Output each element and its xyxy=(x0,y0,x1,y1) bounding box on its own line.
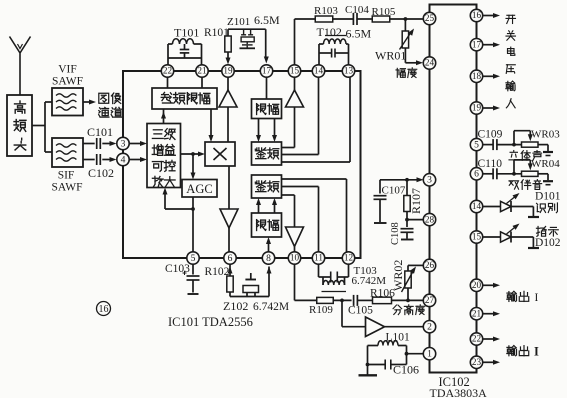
label T103 xyxy=(354,265,378,277)
wire pin3 into amp xyxy=(129,141,147,146)
svg-text:22: 22 xyxy=(163,66,173,76)
svg-text:23: 23 xyxy=(472,357,482,367)
wire pin17 to 限幅 xyxy=(266,77,268,99)
pin 15 IC101 xyxy=(288,65,300,77)
svg-text:6.5M: 6.5M xyxy=(346,27,372,41)
wire junction to audio amp xyxy=(342,300,366,326)
svg-text:28: 28 xyxy=(425,214,435,224)
wire D102 to terminal xyxy=(511,237,539,248)
wire WR02 to pin26 xyxy=(408,264,424,266)
svg-text:C106: C106 xyxy=(393,363,419,377)
wire pin15 riser xyxy=(295,19,316,65)
ground L101 xyxy=(359,365,378,376)
svg-text:T101: T101 xyxy=(174,26,199,40)
pin 3 IC101 xyxy=(117,137,129,149)
wire 鉴频 lower to pin11 xyxy=(282,187,319,253)
wire block to 选频限幅 xyxy=(161,109,166,124)
svg-text:16: 16 xyxy=(99,304,109,315)
wire output arrow o23 xyxy=(483,360,500,365)
wire tap to AGC xyxy=(191,152,196,179)
svg-text:C101: C101 xyxy=(87,125,113,139)
svg-text:20: 20 xyxy=(472,280,482,290)
pin 17 IC101 xyxy=(260,65,272,77)
wire 鉴频 to pin14 xyxy=(282,77,319,155)
wire pin5 to C109 xyxy=(483,144,493,146)
SAW filter VIF SAWF xyxy=(52,64,83,116)
wire pin6 to C110 xyxy=(483,173,493,175)
block 选频限幅 xyxy=(152,88,217,109)
wire C102 to pin 4 xyxy=(102,157,116,162)
transformer T101 tank xyxy=(168,39,202,65)
block 限幅 upper xyxy=(252,99,282,119)
block 鉴频 lower xyxy=(252,175,282,198)
wire output arrow out1 xyxy=(483,283,500,288)
wire switch voltage pin arrow y44.7 xyxy=(483,42,501,47)
svg-text:R103: R103 xyxy=(314,5,338,17)
svg-text:6.742M: 6.742M xyxy=(352,275,387,287)
label 分离度 xyxy=(393,305,425,315)
svg-text:WR01: WR01 xyxy=(375,49,406,63)
capacitor C109 xyxy=(478,129,503,151)
svg-text:2: 2 xyxy=(427,322,432,333)
label 立体声 xyxy=(509,151,542,161)
wire 鉴频 to pin13 xyxy=(282,77,351,162)
svg-text:18: 18 xyxy=(472,71,482,81)
svg-text:21: 21 xyxy=(197,66,207,76)
inductor L101 tank xyxy=(366,341,409,370)
svg-text:R107: R107 xyxy=(409,188,423,214)
label 6.5M T102 xyxy=(346,27,372,41)
label WR03 xyxy=(531,129,560,141)
wire pin10 drop xyxy=(295,264,317,300)
wire 限幅 to 鉴频 right xyxy=(272,119,277,143)
label WR02 vertical xyxy=(391,260,405,291)
wire pin14 to D101 xyxy=(483,206,501,208)
svg-text:6: 6 xyxy=(474,169,479,180)
svg-text:12: 12 xyxy=(344,253,354,263)
wire output arrow o21 xyxy=(483,311,500,316)
label C108 vertical xyxy=(390,222,401,245)
svg-text:16: 16 xyxy=(472,10,482,20)
pin 13 IC101 xyxy=(342,65,354,77)
pin 19 IC101 xyxy=(222,65,234,77)
svg-text:14: 14 xyxy=(314,66,324,76)
antenna xyxy=(10,37,31,96)
ceramic resonator Z102 xyxy=(243,273,259,297)
amplifier triangle to pin6 xyxy=(220,166,238,252)
svg-text:WR02: WR02 xyxy=(391,260,405,291)
capacitor C105 xyxy=(348,295,373,317)
label R107 vertical xyxy=(409,188,423,214)
svg-text:3: 3 xyxy=(427,175,432,186)
label Z102 xyxy=(223,299,248,313)
wire C104 to R105 xyxy=(357,18,373,20)
wire pin3 node xyxy=(380,177,424,182)
svg-text:I: I xyxy=(535,292,539,304)
transformer T103 tank xyxy=(319,264,349,292)
op-amp IC101 TDA2556 outline xyxy=(123,71,361,258)
pin 11 IC101 xyxy=(312,252,324,264)
wire R101 top rail xyxy=(228,28,266,30)
svg-text:25: 25 xyxy=(425,13,435,23)
diode D101 LED xyxy=(501,193,520,212)
label C103 xyxy=(165,263,190,275)
svg-text:11: 11 xyxy=(314,253,323,263)
resistor R106 xyxy=(370,288,395,304)
pin 10 IC101 xyxy=(288,252,300,264)
tuner block 高频头 xyxy=(7,95,32,156)
resistor R109 xyxy=(309,297,333,316)
wire switch voltage pin arrow y108 xyxy=(483,106,501,111)
SAW filter SIF SAWF xyxy=(51,138,83,194)
pin 14 IC102 xyxy=(470,200,482,212)
wire Z101 rail to pin17 xyxy=(264,29,269,63)
svg-text:3: 3 xyxy=(121,138,126,149)
multiplier X block xyxy=(205,142,235,166)
svg-text:C104: C104 xyxy=(345,4,369,16)
wire C105 to R106 xyxy=(357,299,372,301)
potentiometer WR01 xyxy=(400,19,424,65)
svg-text:27: 27 xyxy=(425,295,435,305)
label C106 xyxy=(393,363,419,377)
svg-text:1: 1 xyxy=(427,349,432,360)
potentiometer WR02 xyxy=(402,265,417,300)
amplifier triangle to pin15 xyxy=(286,77,304,107)
capacitor C108 xyxy=(401,220,414,240)
wire output arrow o22 xyxy=(483,337,500,342)
label IC101 TDA2556 xyxy=(168,315,253,329)
label 双伴音 xyxy=(509,180,542,190)
svg-text:C109: C109 xyxy=(478,129,503,141)
svg-text:C103: C103 xyxy=(165,263,190,275)
amplifier audio triangle xyxy=(366,317,385,337)
pin 4 IC101 xyxy=(117,153,129,165)
svg-text:5: 5 xyxy=(474,139,479,150)
svg-text:14: 14 xyxy=(472,201,482,211)
potentiometer WR03 xyxy=(514,131,553,156)
svg-text:5: 5 xyxy=(191,253,196,264)
svg-text:6.742M: 6.742M xyxy=(253,301,289,313)
amplifier triangle to pin10 xyxy=(286,227,304,252)
pin 14 IC101 xyxy=(312,65,324,77)
label WR01 xyxy=(375,49,406,63)
capacitor C107 xyxy=(374,180,387,223)
label 幅度 xyxy=(396,68,417,78)
svg-text:R109: R109 xyxy=(309,304,333,316)
svg-text:Z101: Z101 xyxy=(227,16,250,28)
svg-text:VIF: VIF xyxy=(58,64,77,76)
pin 6 IC101 xyxy=(224,252,236,264)
svg-text:WR03: WR03 xyxy=(531,129,560,141)
resistor R105 xyxy=(372,6,396,22)
wire R106 to pin27 xyxy=(392,299,424,303)
svg-text:13: 13 xyxy=(344,66,354,76)
amplifier triangle to pin19 xyxy=(219,77,237,107)
svg-text:15: 15 xyxy=(290,66,300,76)
wire R109 to junction xyxy=(333,299,351,303)
svg-text:6: 6 xyxy=(228,253,233,264)
diode D102 LED xyxy=(501,224,520,243)
wire pin15 to D102 xyxy=(483,236,501,238)
label R101 xyxy=(204,27,229,39)
wire pin22 to block xyxy=(167,77,169,88)
label 图像通道 xyxy=(99,93,122,117)
svg-text:I: I xyxy=(534,345,539,359)
pin 21 IC101 xyxy=(196,65,208,77)
block AGC xyxy=(182,180,217,198)
svg-text:SAWF: SAWF xyxy=(51,182,82,194)
wire R105 to pin25 xyxy=(390,17,424,21)
svg-text:24: 24 xyxy=(425,58,435,68)
pin 26 IC102 xyxy=(423,259,435,271)
svg-text:D102: D102 xyxy=(535,237,561,249)
svg-text:WR04: WR04 xyxy=(531,158,560,170)
resistor R102 xyxy=(227,264,233,297)
wire 限幅 to 鉴频 left xyxy=(256,119,261,143)
svg-text:SAWF: SAWF xyxy=(52,76,83,88)
svg-text:6.5M: 6.5M xyxy=(254,13,280,27)
pin 25 IC102 xyxy=(423,12,435,24)
pin 3 IC102 xyxy=(423,174,435,186)
svg-text:C107: C107 xyxy=(382,185,406,197)
wire X to triangle xyxy=(227,107,229,142)
svg-text:10: 10 xyxy=(290,253,300,263)
wire SIF to C102 xyxy=(83,159,95,161)
potentiometer WR04 xyxy=(514,160,553,185)
pin 16 IC102 xyxy=(470,9,482,21)
wire rail to pin8 xyxy=(267,267,272,297)
resistor R101 xyxy=(225,29,231,64)
wire R102 Z102 rail xyxy=(230,296,269,298)
pin 2 IC102 xyxy=(423,321,435,333)
capacitor C103 xyxy=(183,264,200,294)
wire AGC feedback to amp xyxy=(163,188,195,211)
wire tank to pin1 xyxy=(407,353,424,355)
wire AGC to pin5 xyxy=(192,197,194,252)
label 输出 I xyxy=(507,291,539,304)
ceramic filter Z101 xyxy=(240,29,256,48)
wire pin8 to 限幅 lower xyxy=(266,237,271,252)
capacitor C101 xyxy=(87,125,113,149)
pin 24 IC102 xyxy=(423,57,435,69)
wire amp to X xyxy=(181,152,206,157)
svg-text:TDA3803A: TDA3803A xyxy=(430,386,488,398)
pin 8 IC101 xyxy=(262,252,274,264)
label L101 xyxy=(386,332,411,344)
wire pin28 node xyxy=(407,219,424,221)
transformer T102 tank xyxy=(319,36,349,66)
svg-text:AGC: AGC xyxy=(186,182,212,196)
svg-text:26: 26 xyxy=(425,260,435,270)
pin 23 IC102 xyxy=(470,356,482,368)
pin 15 IC102 xyxy=(470,231,482,243)
wire tuner to SAW filters xyxy=(32,102,52,152)
svg-text:Z102: Z102 xyxy=(223,299,248,313)
wire 限幅 lower to 鉴频 left xyxy=(256,198,261,213)
wire switch voltage pin arrow y15.5 xyxy=(483,13,501,18)
label WR04 xyxy=(531,158,560,170)
wire SIF to C101 xyxy=(83,143,95,145)
block 限幅 lower xyxy=(252,213,282,237)
svg-text:21: 21 xyxy=(472,308,482,318)
svg-text:4: 4 xyxy=(121,154,126,165)
svg-text:IC101 TDA2556: IC101 TDA2556 xyxy=(168,315,253,329)
label Z101 xyxy=(227,16,250,28)
capacitor C110 xyxy=(478,158,503,179)
label 输出 II xyxy=(507,345,539,359)
svg-text:C108: C108 xyxy=(390,222,401,245)
wire amp to pin2 xyxy=(385,326,424,328)
pin 22 IC102 xyxy=(470,333,482,345)
svg-text:15: 15 xyxy=(472,232,482,242)
svg-text:C110: C110 xyxy=(478,158,503,170)
wire switch voltage pin arrow y76.3 xyxy=(483,74,501,79)
svg-text:19: 19 xyxy=(472,103,482,113)
label 6.742M T103 xyxy=(352,275,387,287)
pin 5 IC102 xyxy=(470,138,482,150)
label R102 xyxy=(205,266,230,278)
pin 22 IC101 xyxy=(161,65,173,77)
pin 17 IC102 xyxy=(470,39,482,51)
pin 5 IC101 xyxy=(187,252,199,264)
svg-text:R101: R101 xyxy=(204,27,229,39)
svg-text:R105: R105 xyxy=(372,6,396,18)
pin 20 IC102 xyxy=(470,279,482,291)
pin 19 IC102 xyxy=(470,102,482,114)
op-amp IC102 TDA3803A outline xyxy=(430,5,477,373)
wire pin4 into amp xyxy=(129,157,147,162)
svg-text:17: 17 xyxy=(472,39,482,49)
svg-text:SIF: SIF xyxy=(58,170,75,182)
capacitor C102 xyxy=(88,154,114,180)
figure number 16 xyxy=(97,302,111,316)
wire C101 to pin 3 xyxy=(102,141,116,146)
svg-text:8: 8 xyxy=(266,253,271,264)
wire 鉴频 lower to pin10 amp xyxy=(282,195,295,227)
block 三级增益可控放大 xyxy=(147,124,181,188)
pin 27 IC102 xyxy=(423,294,435,306)
svg-text:22: 22 xyxy=(472,334,482,344)
wire VIF output to video channel xyxy=(83,100,96,105)
svg-text:R102: R102 xyxy=(205,266,230,278)
pin 18 IC102 xyxy=(470,70,482,82)
svg-text:19: 19 xyxy=(223,66,233,76)
svg-text:17: 17 xyxy=(262,66,272,76)
resistor R107 xyxy=(404,180,410,222)
wire C110 to WR04 xyxy=(497,172,522,176)
pin 12 IC101 xyxy=(342,252,354,264)
label 识别 xyxy=(537,203,558,213)
capacitor C104 xyxy=(345,4,369,25)
label TDA3803A xyxy=(430,386,488,398)
label 6.5M top xyxy=(254,13,280,27)
wire 鉴频 lower to pin12 xyxy=(282,179,347,252)
label T102 xyxy=(317,25,342,39)
wire R103 to C104 xyxy=(333,18,354,20)
wire C109 to WR03 xyxy=(497,143,522,147)
svg-text:D101: D101 xyxy=(535,191,561,203)
label 指示 xyxy=(536,226,558,236)
pin 28 IC102 xyxy=(423,213,435,225)
pin 1 IC102 xyxy=(423,348,435,360)
wire 选频限幅 to X xyxy=(209,109,214,142)
svg-text:C105: C105 xyxy=(348,305,373,317)
wire 鉴频 to pin15 amp xyxy=(282,107,295,148)
pin 21 IC102 xyxy=(470,308,482,320)
label 6.742M Z102 xyxy=(253,301,289,313)
wire D101 to terminal xyxy=(511,207,539,218)
block 鉴频 upper xyxy=(252,142,282,165)
wire pin21 to block xyxy=(201,77,203,88)
wire 限幅 lower to 鉴频 right xyxy=(272,198,277,213)
pin 6 IC102 xyxy=(470,168,482,180)
label D101 xyxy=(535,191,561,203)
label IC102 xyxy=(439,375,470,389)
label 开关电压输入 xyxy=(506,15,516,108)
label D102 xyxy=(535,237,561,249)
resistor R103 xyxy=(314,5,338,22)
svg-text:T102: T102 xyxy=(317,25,342,39)
label T101 xyxy=(174,26,199,40)
label C107 xyxy=(382,185,406,197)
svg-text:C102: C102 xyxy=(88,166,114,180)
